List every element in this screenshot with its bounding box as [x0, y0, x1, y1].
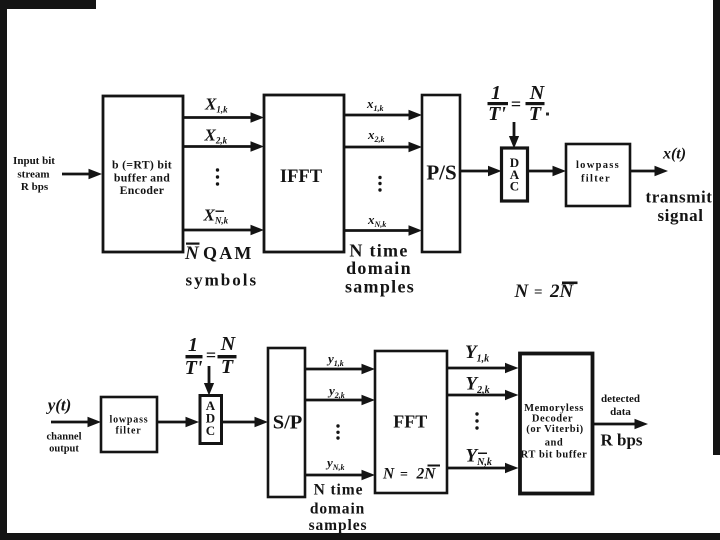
svg-text:=: = — [511, 94, 521, 114]
svg-text:R bps: R bps — [600, 431, 642, 450]
svg-text:b (=RT) bit: b (=RT) bit — [112, 158, 172, 172]
svg-text:(or Viterbi): (or Viterbi) — [526, 424, 583, 435]
svg-text:1: 1 — [188, 334, 198, 356]
wire yN — [305, 470, 375, 480]
label detected data — [601, 393, 640, 418]
wire input arrow — [62, 169, 102, 179]
svg-text:Memoryless: Memoryless — [524, 403, 584, 414]
svg-text:R bps: R bps — [21, 181, 49, 193]
dots between Y2 and YN — [475, 412, 478, 429]
svg-text:Decoder: Decoder — [532, 414, 573, 425]
wire x2 — [344, 142, 422, 152]
block ADC — [200, 396, 222, 444]
svg-text:filter: filter — [581, 174, 611, 185]
svg-text:=: = — [534, 285, 543, 301]
wire X2 — [183, 141, 264, 151]
wire channel input arrow — [51, 417, 101, 427]
svg-text:lowpass: lowpass — [110, 415, 149, 426]
wire XN — [183, 225, 264, 235]
wire P/S to DAC — [460, 166, 502, 176]
svg-text:filter: filter — [116, 426, 142, 437]
svg-text:lowpass: lowpass — [576, 160, 620, 171]
wire fraction arrow into ADC — [204, 366, 214, 396]
label XNk — [203, 206, 229, 226]
svg-text:samples: samples — [309, 517, 368, 534]
svg-text:symbols: symbols — [186, 271, 259, 290]
wire YN — [447, 463, 519, 473]
svg-text:detected: detected — [601, 393, 640, 405]
wire xN — [344, 225, 422, 235]
svg-text:=: = — [206, 345, 216, 365]
svg-text:2N: 2N — [416, 466, 437, 483]
svg-text:RT bit buffer: RT bit buffer — [521, 450, 588, 461]
wire DAC to lowpass — [527, 166, 566, 176]
svg-text:output: output — [49, 444, 79, 455]
block lowpass filter top — [566, 144, 630, 206]
svg-text:T: T — [221, 356, 234, 378]
label N time domain samples bottom — [309, 482, 368, 535]
svg-text:channel: channel — [46, 432, 81, 443]
svg-text:C: C — [510, 179, 519, 194]
svg-text:y(t): y(t) — [46, 396, 72, 415]
dots between y2 and yN — [336, 424, 339, 439]
block DAC — [502, 148, 528, 201]
wire transmit out — [630, 166, 668, 176]
block encoder — [103, 96, 183, 252]
wire fraction arrow into DAC — [509, 122, 519, 149]
svg-text:N: N — [529, 82, 546, 104]
svg-text:N: N — [514, 281, 530, 302]
svg-text:N: N — [220, 333, 237, 355]
wire X1 — [183, 112, 264, 122]
svg-text:S/P: S/P — [273, 412, 303, 434]
svg-text:1: 1 — [491, 82, 501, 104]
svg-text:2N: 2N — [549, 281, 575, 302]
label N time domain samples top — [345, 241, 415, 297]
svg-text:domain: domain — [310, 501, 365, 518]
dots between X2 and XN — [216, 168, 219, 185]
label transmit signal — [645, 188, 712, 226]
label sampling rate fraction bottom — [185, 333, 237, 379]
block FFT — [375, 351, 447, 493]
label sampling rate fraction top — [488, 82, 550, 125]
svg-text:stream: stream — [17, 169, 49, 181]
wire detected out — [592, 419, 648, 429]
svg-text:IFFT: IFFT — [280, 167, 323, 187]
svg-text:FFT: FFT — [393, 412, 427, 432]
svg-text:N: N — [184, 243, 200, 264]
svg-text:x(t): x(t) — [662, 146, 686, 163]
label N equals 2N top — [514, 281, 578, 302]
wire y2 — [305, 395, 375, 405]
block IFFT — [264, 95, 344, 252]
label channel output — [46, 432, 81, 455]
svg-text:N time: N time — [314, 482, 364, 499]
label YNk — [466, 446, 492, 469]
svg-text:P/S: P/S — [426, 161, 456, 185]
svg-text:samples: samples — [345, 277, 415, 297]
block decoder — [520, 354, 593, 494]
label input bit stream R bps — [13, 155, 55, 193]
svg-text:transmit: transmit — [645, 188, 712, 207]
dots between x2 and xN — [378, 176, 381, 192]
wire y1 — [305, 364, 375, 374]
svg-text:T: T — [529, 103, 542, 125]
wire Y1 — [447, 363, 519, 373]
svg-text:=: = — [400, 468, 408, 483]
block P/S — [422, 95, 460, 252]
svg-text:QAM: QAM — [203, 243, 254, 263]
svg-text:domain: domain — [346, 258, 412, 278]
svg-text:N: N — [382, 466, 395, 483]
wire Y2 — [447, 390, 519, 400]
wire x1 — [344, 110, 422, 120]
svg-text:data: data — [610, 406, 631, 418]
svg-text:and: and — [545, 438, 564, 449]
label N QAM symbols — [184, 243, 258, 290]
block S/P — [268, 348, 305, 497]
svg-text:C: C — [206, 423, 215, 438]
wire ADC to S/P — [221, 417, 268, 427]
svg-text:Input bit: Input bit — [13, 155, 55, 167]
wire lowpass to ADC — [157, 417, 199, 427]
block lowpass filter bottom — [101, 397, 157, 452]
svg-text:signal: signal — [657, 206, 703, 225]
svg-text:Encoder: Encoder — [120, 183, 165, 197]
svg-text:T': T' — [488, 103, 506, 125]
svg-text:T': T' — [185, 357, 203, 379]
